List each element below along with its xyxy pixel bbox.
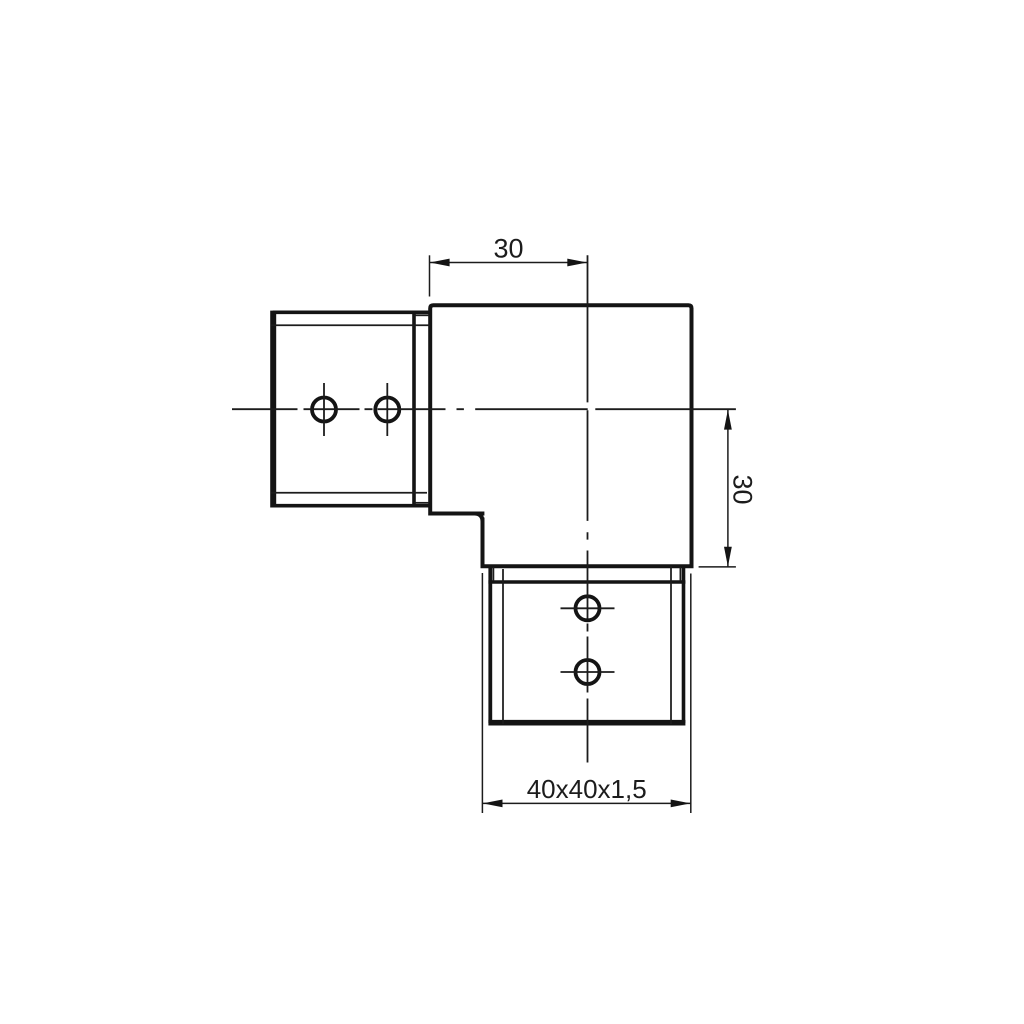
- dimension 30 (right): dimension line: [727, 410, 729, 567]
- dimension 40x40x1,5 (bottom): left extension line: [481, 573, 483, 813]
- hole 4 (bottom sleeve): [576, 660, 600, 684]
- left sleeve top edge: [273, 310, 430, 314]
- hole 3 crosshair: [561, 607, 615, 609]
- bottom neck thin line left: [492, 567, 494, 581]
- dimension 40x40x1,5 (bottom): left arrowhead: [483, 800, 503, 808]
- hole 2 crosshair: [386, 383, 388, 436]
- hole 1 (left sleeve): [312, 398, 336, 422]
- dimension 30 (right): top arrowhead: [724, 410, 732, 430]
- svg-text:40x40x1,5: 40x40x1,5: [527, 774, 647, 804]
- dimension 40x40x1,5 (bottom): dimension line: [482, 802, 690, 804]
- dimension 30 (top): left arrowhead: [430, 259, 450, 267]
- left sleeve inner thin line bottom: [271, 492, 427, 494]
- hole 3 (bottom sleeve): [576, 596, 600, 620]
- main body outline (L-shaped square block): [430, 305, 691, 566]
- left sleeve right end: [412, 311, 416, 508]
- hole 4 crosshair: [561, 671, 615, 673]
- bottom neck thin line right: [679, 567, 681, 581]
- hole 1 crosshair: [323, 383, 325, 436]
- left sleeve inner thin line top: [271, 324, 430, 326]
- dimension 40x40x1,5 (bottom): right extension line: [690, 574, 692, 814]
- hole 2 (left sleeve): [375, 398, 399, 422]
- svg-text:30: 30: [493, 234, 523, 264]
- bottom sleeve top end: [488, 580, 685, 584]
- bottom sleeve inner thin line right: [670, 566, 672, 724]
- bottom sleeve left edge: [488, 566, 492, 723]
- bottom sleeve bottom end (tube end, extra thick): [488, 720, 685, 726]
- bottom sleeve right edge: [682, 566, 686, 723]
- vertical centerline: [587, 255, 589, 762]
- left neck thin line top: [414, 314, 429, 316]
- step corner edge stub horizontal: [474, 512, 484, 516]
- dimension 30 (right): bottom arrowhead: [724, 547, 732, 567]
- dimension 30 (right): bottom extension line: [699, 566, 736, 568]
- dimension 30 (top): right arrowhead: [567, 259, 587, 267]
- step corner edge stub vertical: [481, 518, 485, 525]
- dimension 40x40x1,5 (bottom): right arrowhead: [671, 800, 691, 808]
- left neck thin line bottom: [414, 502, 429, 504]
- dimension 30 (top): left extension line: [429, 255, 431, 296]
- svg-text:30: 30: [728, 474, 758, 504]
- horizontal centerline: [232, 408, 736, 410]
- left sleeve left end (tube end, extra thick): [270, 311, 276, 508]
- left sleeve bottom edge: [273, 504, 430, 508]
- bottom sleeve inner thin line left: [502, 569, 504, 724]
- dimension 30 (top): dimension line: [430, 262, 588, 264]
